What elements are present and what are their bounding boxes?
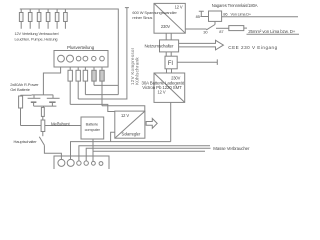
wire charger 12V output down (170, 102, 172, 141)
fuse under Plusverteilung 2 (76, 67, 80, 99)
svg-text:Kühlschrank: Kühlschrank (135, 57, 140, 85)
arrow CEE inlet (179, 40, 224, 50)
wire relay pin 86 to Lima D+ (222, 16, 298, 18)
svg-text:Leuchten, Pumpe, Heizung: Leuchten, Pumpe, Heizung (15, 38, 58, 42)
svg-text:Meßshunt: Meßshunt (51, 121, 70, 126)
terminal large 2 Plusverteilung (67, 55, 74, 62)
wire shunt to Batterie computer (21, 125, 82, 127)
wire Masse line 3 (93, 150, 205, 152)
wire fuse to starter battery (244, 27, 247, 29)
wire relay 87 to fuse (216, 27, 229, 29)
svg-text:12V Verteilung Verbraucher/: 12V Verteilung Verbraucher/ (15, 32, 60, 36)
terminal small 1 Minusverteilung (77, 161, 81, 165)
fuse F2 top row (28, 9, 32, 29)
fuse F6 top row (64, 9, 68, 29)
battery plate short left (31, 101, 37, 103)
wire shunt to switch (42, 132, 44, 137)
inverter U1 600W box (154, 3, 185, 33)
svg-text:12 V: 12 V (121, 113, 129, 118)
battery plate short right (49, 101, 55, 103)
wire fuse2 to compressor feed riser (78, 8, 129, 99)
wire Masse line 2 (86, 148, 210, 161)
fuse battery sense (19, 96, 23, 108)
wire Masse line 1 (79, 146, 210, 161)
battery plate long right (47, 97, 60, 99)
solar controller box Solarregler (115, 111, 145, 138)
terminal small 1 Plusverteilung (76, 56, 81, 61)
fuse F5 top row (55, 9, 59, 29)
svg-text:85: 85 (196, 14, 201, 19)
svg-text:FI: FI (168, 61, 174, 67)
box Batterie computer (81, 117, 104, 139)
wire 12V top distribution bus (20, 9, 119, 95)
inverter diagonal (154, 3, 185, 33)
svg-text:computer: computer (85, 127, 101, 132)
fuse under Plusverteilung 5 (100, 67, 104, 106)
wire battery feed from large terminal 1 (43, 67, 60, 95)
fuse under Plusverteilung 1 (68, 67, 72, 104)
wire inverter output to relay contact 30 (185, 28, 206, 30)
svg-text:Netzumschalter: Netzumschalter (145, 44, 174, 49)
charger box 30A Batterie Ladegeraet (154, 73, 185, 102)
svg-text:CEE 230 V Eingang: CEE 230 V Eingang (228, 45, 277, 50)
wire Netzumschalter to FI stubs (166, 52, 171, 56)
shunt Messshunt (41, 120, 45, 132)
wire Solarregler minus (111, 132, 115, 141)
wire relay pin 85 (200, 16, 208, 18)
terminal small 4 Minusverteilung (99, 162, 103, 166)
switch blade Hauptschalter (39, 137, 44, 146)
svg-text:Plusverteilung: Plusverteilung (67, 45, 95, 50)
svg-text:25mm² von Lima bzw. D+: 25mm² von Lima bzw. D+ (248, 29, 296, 34)
terminal mark above 85 (199, 11, 204, 16)
svg-text:30: 30 (203, 29, 208, 34)
battery plate long left (28, 97, 41, 99)
svg-text:Hauptschalter: Hauptschalter (14, 139, 38, 144)
wire battery left sense with fuse (21, 95, 32, 125)
terminal small 3 Plusverteilung (92, 56, 96, 60)
terminal small 4 Plusverteilung (100, 56, 105, 61)
breaker FI box (165, 56, 177, 69)
svg-text:12 V: 12 V (158, 90, 166, 95)
fuse main battery (41, 107, 44, 116)
svg-text:87: 87 (219, 29, 224, 34)
charger diagonal (154, 73, 185, 102)
wire fuse3 joins bus riser (85, 94, 118, 96)
wire FI to charger stubs (167, 69, 172, 73)
terminal large 2 Minusverteilung (67, 159, 74, 166)
svg-text:Von Lima D+: Von Lima D+ (231, 13, 252, 17)
battery bottom bus (34, 102, 57, 107)
wire inverter to Netzumschalter stubs (166, 33, 171, 40)
svg-text:12 V: 12 V (175, 5, 183, 10)
battery BT1 top bus (32, 95, 54, 98)
svg-text:Masse Verbraucher: Masse Verbraucher (213, 146, 250, 151)
fuse F4 top row (46, 9, 50, 29)
svg-text:230V: 230V (161, 24, 170, 29)
svg-text:reiner Sinus: reiner Sinus (132, 15, 152, 20)
wire fuse5 to Solarregler top (102, 106, 145, 111)
svg-text:Gel Batterie: Gel Batterie (10, 87, 31, 92)
terminal small 3 Minusverteilung (92, 161, 96, 165)
wire fuse to shunt (42, 116, 44, 120)
fuse under Plusverteilung 4 (92, 67, 96, 85)
relay K1 coil box (209, 11, 222, 21)
wire minus bus charger to Minusverteilung (71, 142, 171, 160)
switch box Netzumschalter (160, 40, 179, 52)
svg-text:Solarregler: Solarregler (122, 132, 141, 137)
arrow solar panel input (146, 119, 157, 129)
busbar box Minusverteilung (54, 156, 109, 171)
fuse F3 top row (37, 9, 41, 29)
svg-text:Nagares Trennrelais/180A: Nagares Trennrelais/180A (212, 3, 258, 8)
label 12V Kompressor Kuehlschrank (rotated) (130, 47, 139, 85)
wire relay armature stub (214, 21, 216, 24)
switch blade relay contact (206, 25, 215, 30)
busbar box Plusverteilung (54, 51, 108, 68)
terminal large 1 Minusverteilung (58, 159, 65, 166)
terminal large 1 Plusverteilung (58, 55, 65, 62)
terminal small 2 Minusverteilung (84, 161, 88, 165)
fuse main 25mm2 (229, 26, 244, 31)
wire starter battery line (247, 33, 300, 35)
wire fuse1 to Solarregler left (70, 104, 115, 111)
wire switch to Minusverteilung (44, 145, 61, 159)
wire fuse4 joins bus riser (94, 84, 118, 86)
terminal small 2 Plusverteilung (83, 56, 88, 61)
wire Batterie computer minus down (92, 139, 94, 161)
svg-text:86: 86 (223, 12, 228, 17)
wire FI auxiliary output with end tick (177, 59, 217, 65)
fuse under Plusverteilung 3 (83, 67, 87, 95)
fuse F1 top row (19, 9, 23, 29)
solar controller diagonal (115, 111, 145, 138)
